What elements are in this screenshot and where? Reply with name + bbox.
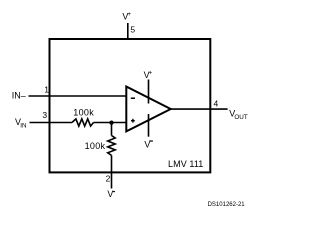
wire pin 3 (from VIN to resistor)	[30, 122, 73, 124]
resistor 100k (vertical, to V-)	[108, 136, 116, 156]
op-amp V+ supply stub wire	[148, 80, 150, 104]
svg-text:1: 1	[44, 84, 49, 94]
wire pin 2 (to V- below box)	[111, 155, 113, 188]
svg-text:100k: 100k	[73, 108, 94, 118]
wire pin 5 (V+ supply)	[127, 23, 129, 39]
svg-text:V: V	[107, 189, 113, 199]
wire junction to vertical resistor	[111, 123, 113, 136]
label VOUT	[229, 108, 248, 121]
label V+ (top supply)	[122, 11, 131, 21]
op-amp non-inverting input mark (+)	[131, 119, 135, 123]
svg-text:IN: IN	[20, 123, 27, 130]
wire pin 4 (output)	[170, 108, 228, 110]
svg-text:5: 5	[130, 24, 135, 34]
svg-text:+: +	[148, 70, 152, 77]
svg-text:OUT: OUT	[234, 114, 247, 121]
resistor 100k (horizontal, input)	[72, 119, 94, 126]
svg-text:4: 4	[214, 99, 219, 109]
svg-text:+: +	[127, 11, 131, 18]
wire pin 1 (inverting input)	[29, 95, 128, 97]
op-amp V- supply stub wire	[148, 114, 150, 137]
label V- (bottom supply)	[107, 189, 115, 199]
svg-text:3: 3	[42, 110, 47, 120]
svg-text:DS101262-21: DS101262-21	[208, 202, 246, 208]
op-amp V- label	[144, 140, 153, 150]
IC outline box	[50, 39, 211, 172]
op-amp V+ label	[144, 70, 153, 80]
op-amp inverting input mark (-)	[131, 97, 135, 99]
svg-text:LMV 111: LMV 111	[168, 159, 203, 169]
svg-text:100k: 100k	[85, 141, 106, 151]
svg-text:2: 2	[106, 173, 111, 183]
node junction dot	[109, 121, 113, 125]
op-amp U1 triangle	[126, 87, 170, 132]
label VIN	[15, 117, 27, 130]
svg-text:IN–: IN–	[12, 91, 26, 101]
wire from resistor to op-amp + input	[94, 122, 128, 124]
